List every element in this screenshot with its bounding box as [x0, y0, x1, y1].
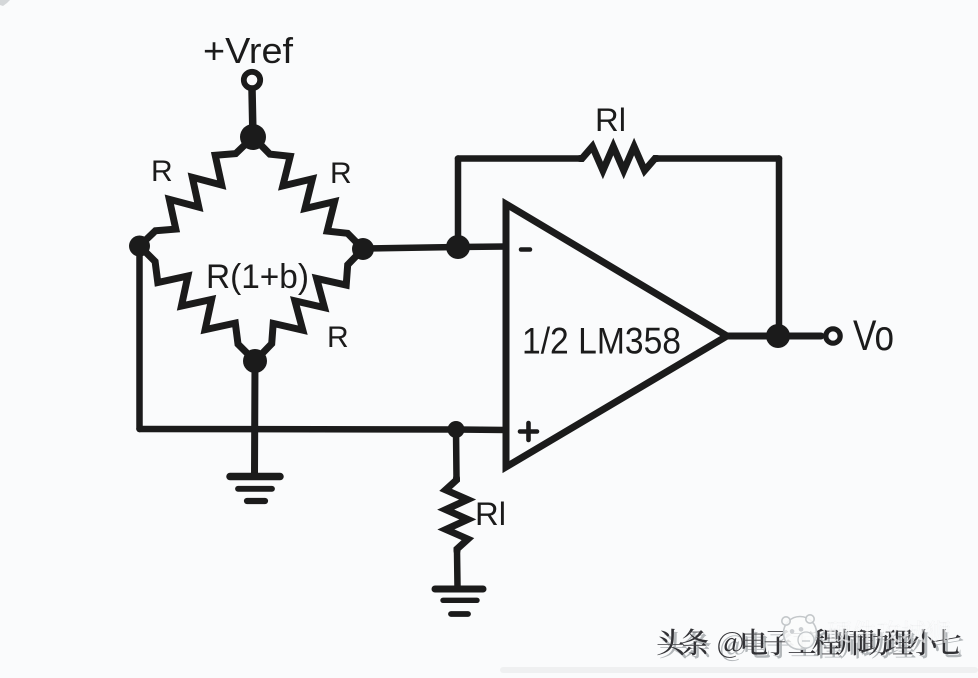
ground below bridge [230, 477, 280, 502]
caption 头条 @电子工程师助理小七 [657, 628, 960, 658]
wire load resistor to ground [454, 551, 461, 587]
faint bottom streak [500, 667, 978, 673]
corner speck [0, 0, 10, 6]
watermark mascot face [782, 615, 817, 650]
resistor R(1+b) bottom-left bridge arm [140, 246, 256, 361]
label Rl feedback [595, 102, 626, 138]
label R top-left [151, 155, 173, 188]
ground below load resistor Rl [435, 589, 483, 614]
svg-text:R(1+b): R(1+b) [206, 258, 309, 296]
svg-text:R: R [151, 155, 173, 188]
node inverting input junction [446, 235, 470, 259]
label R(1+b) [206, 258, 309, 296]
op-amp non-inverting input label + [520, 423, 537, 440]
wire feedback up from inverting junction [455, 159, 462, 248]
wire bridge right node to inverting input junction [363, 247, 506, 249]
wire feedback down to output node [776, 159, 783, 337]
svg-text:+Vref: +Vref [203, 30, 294, 71]
node non-inverting input junction [448, 421, 465, 438]
op-amp inverting input label - [521, 247, 530, 252]
label +Vref [203, 30, 294, 71]
node bridge bottom junction [243, 349, 267, 373]
svg-text:R: R [330, 157, 352, 190]
resistor Rl load [446, 478, 468, 551]
svg-text:Rl: Rl [475, 496, 506, 532]
svg-text:R: R [327, 321, 349, 354]
wire op-amp output to Vo terminal [727, 333, 821, 340]
wire bridge bottom node down to ground [251, 361, 259, 474]
label R bottom-right [327, 321, 349, 354]
label R top-right [330, 157, 352, 190]
node bridge right junction [352, 238, 374, 260]
svg-text:Vo: Vo [853, 312, 894, 360]
terminal +Vref open circle [244, 72, 260, 88]
resistor R bottom-right bridge arm [255, 249, 363, 361]
caption shadow 头条 @电子工程师助理小七 [660, 632, 963, 662]
op-amp U1 1/2 LM358 [506, 204, 727, 467]
wire plus rail horizontal to op-amp non-inverting input [140, 429, 507, 430]
resistor Rl feedback [580, 147, 657, 171]
node bridge top junction [240, 124, 266, 150]
svg-text:1/2 LM358: 1/2 LM358 [522, 320, 681, 362]
node output junction [766, 324, 790, 348]
label Vo [853, 312, 894, 360]
wire plus junction down to load resistor [453, 430, 460, 479]
watermark text 硬件攻城狮 [828, 620, 950, 643]
wire feedback top right segment [657, 155, 779, 162]
wire bridge left node down to plus rail [136, 246, 143, 429]
label Rl load [475, 496, 506, 532]
svg-text:Rl: Rl [595, 102, 626, 138]
resistor R top-right bridge arm [253, 137, 363, 249]
wire Vref terminal to bridge top node [252, 89, 253, 137]
resistor R top-left bridge arm [140, 137, 254, 246]
node bridge left junction [129, 236, 150, 257]
terminal Vo open circle [826, 329, 840, 343]
wire feedback top left segment [458, 155, 580, 162]
